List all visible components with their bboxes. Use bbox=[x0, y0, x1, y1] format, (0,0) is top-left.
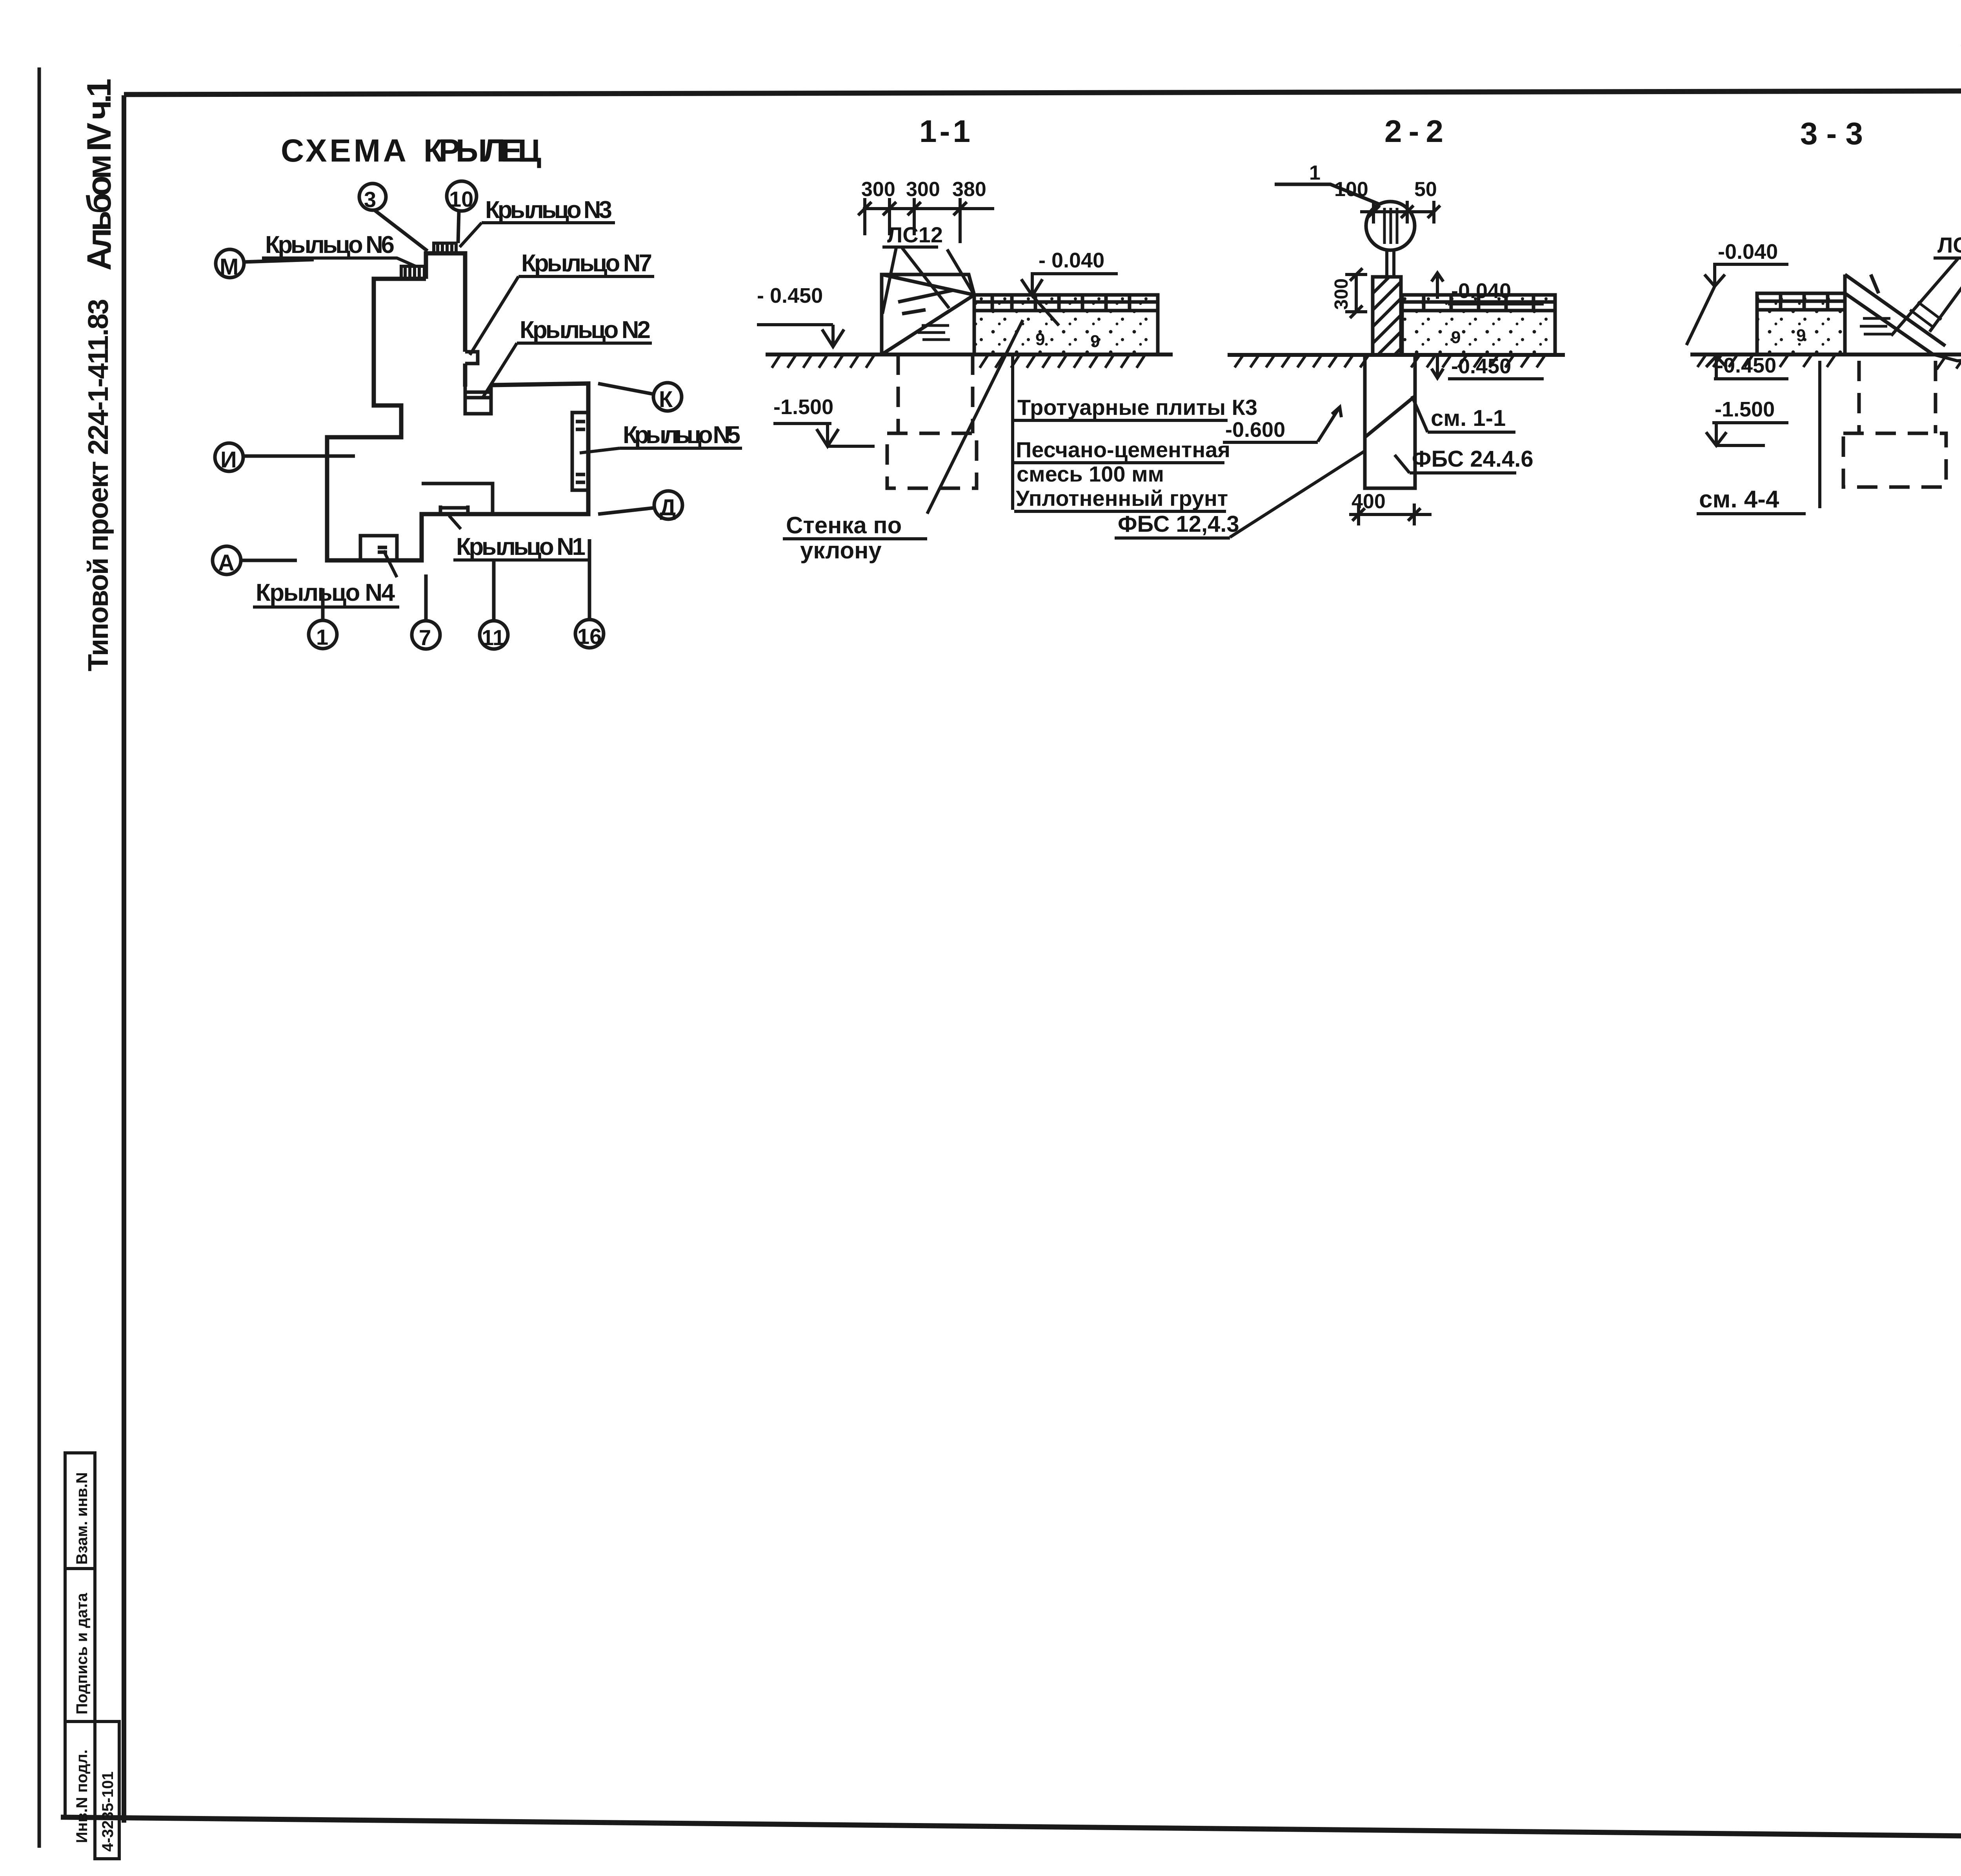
svg-text:ЛС12: ЛС12 bbox=[887, 222, 943, 247]
svg-text:смесь 100 мм: смесь 100 мм bbox=[1017, 462, 1164, 486]
page left edge line bbox=[38, 67, 41, 1848]
steps block bbox=[882, 249, 974, 354]
svg-text:Д: Д bbox=[660, 495, 676, 520]
svg-text:9: 9 bbox=[1090, 332, 1100, 351]
svg-text:50: 50 bbox=[1414, 178, 1437, 201]
porch N7 square bbox=[465, 352, 478, 364]
svg-text:9: 9 bbox=[1451, 328, 1461, 347]
svg-text:Взам. инв.N: Взам. инв.N bbox=[73, 1472, 91, 1565]
bottom axis circle 11 bbox=[480, 559, 508, 649]
svg-text:100: 100 bbox=[1334, 178, 1368, 201]
svg-text:М: М bbox=[220, 254, 238, 280]
svg-text:ФБС 12,4.3: ФБС 12,4.3 bbox=[1118, 511, 1239, 537]
svg-text:Стенка по: Стенка по bbox=[786, 512, 902, 538]
axis circle 10 with leader bbox=[447, 181, 477, 243]
svg-text:Крыльцо N4: Крыльцо N4 bbox=[256, 579, 395, 606]
svg-text:Инв.N подл.: Инв.N подл. bbox=[73, 1749, 91, 1843]
svg-text:300: 300 bbox=[1331, 278, 1352, 310]
porch N4 rect bbox=[360, 536, 397, 560]
porch N2 rect bbox=[465, 385, 491, 414]
svg-text:11: 11 bbox=[482, 625, 505, 650]
svg-text:ЛС 12: ЛС 12 bbox=[1937, 233, 1961, 257]
bottom axis circle 1 bbox=[309, 588, 337, 649]
svg-text:1: 1 bbox=[316, 625, 328, 649]
svg-text:9: 9 bbox=[1796, 326, 1806, 345]
porch N1 rect bbox=[422, 484, 493, 514]
svg-text:К: К bbox=[659, 387, 673, 412]
porch N6 hatched blocks bbox=[401, 266, 424, 279]
svg-text:Крыльцо N3: Крыльцо N3 bbox=[485, 196, 612, 224]
post lines to wall bbox=[1387, 250, 1394, 295]
svg-text:КРЫЛЕЦ: КРЫЛЕЦ bbox=[424, 133, 541, 169]
svg-text:Уплотненный грунт: Уплотненный грунт bbox=[1016, 486, 1228, 511]
svg-text:- 0.040: - 0.040 bbox=[1039, 249, 1104, 272]
svg-text:Крыльцо N7: Крыльцо N7 bbox=[521, 250, 652, 277]
svg-text:-0.600: -0.600 bbox=[1225, 418, 1285, 442]
svg-text:16: 16 bbox=[577, 624, 602, 649]
axis circle 3 with leader bbox=[359, 184, 427, 251]
axis circle К bbox=[598, 383, 682, 411]
dashed foundation bbox=[1843, 361, 1946, 487]
svg-text:300: 300 bbox=[861, 178, 895, 201]
bottom axis circle 16 bbox=[575, 539, 604, 648]
svg-text:4-3235-101: 4-3235-101 bbox=[99, 1771, 116, 1852]
svg-text:-1.500: -1.500 bbox=[1715, 398, 1775, 421]
svg-text:Альбом IV ч.1: Альбом IV ч.1 bbox=[80, 78, 118, 271]
svg-text:10: 10 bbox=[449, 187, 473, 211]
svg-text:Тротуарные плиты К3: Тротуарные плиты К3 bbox=[1017, 395, 1257, 420]
building outline bbox=[327, 243, 588, 560]
svg-text:-0.450: -0.450 bbox=[1451, 354, 1511, 378]
bottom axis circle 7 bbox=[412, 574, 440, 649]
callout circle 1 bbox=[1275, 184, 1415, 250]
svg-text:3 - 3: 3 - 3 bbox=[1800, 116, 1863, 151]
svg-text:1: 1 bbox=[1309, 162, 1321, 184]
svg-text:Песчано-цементная: Песчано-цементная bbox=[1016, 437, 1230, 462]
dashed foundation bbox=[887, 354, 977, 488]
ground line bbox=[766, 354, 1173, 368]
svg-text:Крыльцо N6: Крыльцо N6 bbox=[265, 231, 395, 258]
svg-text:уклону: уклону bbox=[800, 537, 882, 564]
svg-text:9: 9 bbox=[1035, 330, 1045, 349]
svg-text:СХЕМА: СХЕМА bbox=[281, 133, 406, 169]
slab right bbox=[1402, 295, 1555, 355]
foundation block bbox=[1365, 355, 1415, 488]
ground line 2-2 bbox=[1228, 355, 1565, 367]
slab bbox=[1757, 293, 1845, 354]
svg-text:Крыльцо N2: Крыльцо N2 bbox=[520, 316, 651, 344]
axis circle Д bbox=[598, 491, 682, 519]
svg-text:-1.500: -1.500 bbox=[773, 395, 833, 419]
svg-text:300: 300 bbox=[906, 178, 940, 201]
slope wall bbox=[1845, 274, 1945, 354]
axis circle А bbox=[213, 546, 297, 574]
drawing frame border bbox=[122, 95, 126, 1823]
svg-text:-0.040: -0.040 bbox=[1451, 279, 1511, 303]
pavement slab bbox=[974, 295, 1158, 354]
left stamp boxes bbox=[65, 1453, 119, 1859]
svg-text:см. 1-1: см. 1-1 bbox=[1431, 405, 1506, 431]
svg-text:И: И bbox=[220, 447, 237, 473]
axis circle И bbox=[215, 443, 355, 471]
svg-text:Подпись и дата: Подпись и дата bbox=[73, 1592, 91, 1714]
svg-text:380: 380 bbox=[952, 178, 986, 201]
leader line to notes bbox=[1011, 355, 1014, 510]
svg-text:2 - 2: 2 - 2 bbox=[1384, 114, 1443, 149]
svg-text:см. 4-4: см. 4-4 bbox=[1699, 486, 1779, 513]
svg-text:Крыльцо N5: Крыльцо N5 bbox=[623, 422, 740, 449]
svg-text:1 - 1: 1 - 1 bbox=[919, 114, 970, 149]
hatched wall bbox=[1373, 277, 1401, 355]
svg-text:ФБС 24.4.6: ФБС 24.4.6 bbox=[1412, 446, 1534, 472]
svg-text:Крыльцо N1: Крыльцо N1 bbox=[456, 533, 586, 560]
svg-text:400: 400 bbox=[1352, 490, 1386, 513]
svg-text:-0.040: -0.040 bbox=[1718, 240, 1778, 264]
svg-text:А: А bbox=[218, 550, 235, 576]
svg-text:Типовой проект 224-1-411.83: Типовой проект 224-1-411.83 bbox=[83, 299, 114, 671]
porch N5 double rect bbox=[572, 413, 588, 490]
svg-text:7: 7 bbox=[419, 625, 431, 650]
axis circle M bbox=[216, 249, 314, 278]
ground line 3-3 bbox=[1690, 354, 1961, 369]
svg-text:3: 3 bbox=[364, 187, 376, 212]
svg-text:- 0.450: - 0.450 bbox=[757, 284, 823, 307]
